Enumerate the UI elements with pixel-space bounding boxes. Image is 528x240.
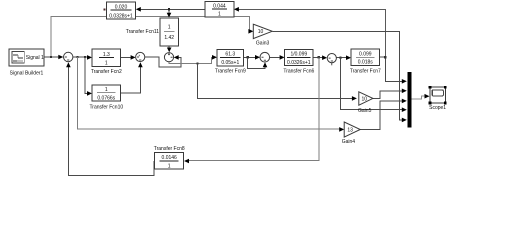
block labels xyxy=(10,29,447,152)
arrow into Gain5 left xyxy=(352,96,357,101)
svg-text:Transfer Fcn9: Transfer Fcn9 xyxy=(215,69,246,75)
junction at (51,57) xyxy=(50,56,52,58)
junction top xyxy=(168,8,170,10)
arrow into TF2 left xyxy=(87,55,92,60)
junction (84.9,57) xyxy=(84,56,86,58)
arrow into TF10 left xyxy=(87,91,92,96)
wire: Sum3 output to Transfer Fcn6 xyxy=(270,56,280,58)
arrow into mux in1 xyxy=(402,79,407,84)
wire: branch down from (197.6,63.6) to Gain5 input xyxy=(198,64,353,99)
wire: top feedback from TF7 up to 0.044 input xyxy=(238,9,386,57)
sum Sum3 xyxy=(260,52,270,62)
svg-text:10: 10 xyxy=(258,29,264,35)
block Transfer Fcn (0.020) top-left, flipped xyxy=(107,2,136,19)
wire: Gain3 output right then down to mux in5 xyxy=(272,31,402,120)
arrow into mux in2 xyxy=(402,89,407,94)
block Scope1 with selection handles xyxy=(430,87,445,103)
sum sign marks xyxy=(65,53,333,65)
svg-text:0.018s: 0.018s xyxy=(358,60,374,66)
svg-text:0.044: 0.044 xyxy=(213,4,226,10)
wire: drop into Transfer Fcn11 top xyxy=(168,9,170,13)
block Transfer Fcn10 xyxy=(92,85,121,101)
wire: branch down from TF6 output to Transfer Fcn8 input xyxy=(189,57,319,160)
svg-text:0.0326s+1: 0.0326s+1 xyxy=(287,60,311,66)
arrow into SumB top xyxy=(167,48,172,53)
svg-text:Gain3: Gain3 xyxy=(256,40,270,46)
block Transfer Fcn (0.044), flipped xyxy=(205,2,234,17)
svg-text:Transfer Fcn7: Transfer Fcn7 xyxy=(350,69,381,75)
svg-text:1: 1 xyxy=(105,87,108,93)
text values xyxy=(26,4,374,170)
svg-text:0.020: 0.020 xyxy=(115,5,128,11)
arrow into TF6 left xyxy=(280,55,285,60)
block Transfer Fcn9 xyxy=(217,50,244,67)
svg-text:1.3: 1.3 xyxy=(103,52,110,58)
arrow into Gain3 left xyxy=(248,29,253,34)
wire: branch down to Transfer Fcn10 input xyxy=(85,57,89,93)
arrow into Sum1 bottom (minus feedback) xyxy=(66,62,71,67)
arrow into SumB right xyxy=(174,55,179,60)
arrow into 0.044 block right xyxy=(234,7,239,12)
svg-text:1.42: 1.42 xyxy=(164,35,174,41)
block Signal Builder1 xyxy=(9,49,44,66)
arrow into 0.020 block right xyxy=(136,7,141,12)
svg-text:1: 1 xyxy=(168,163,171,169)
wire: Gain4 output up to mux in3 xyxy=(360,101,402,129)
mux (black bar) xyxy=(408,72,412,127)
gain Gain3 triangle xyxy=(253,24,373,137)
wire: Signal Builder to Sum1 xyxy=(44,56,59,58)
svg-text:Transfer Fcn10: Transfer Fcn10 xyxy=(89,104,123,110)
wire: branch down to Gain4 input (y=129) xyxy=(78,57,341,129)
wire: Transfer Fcn9 output to Sum3, branch up to Gain3, jog into Sum3 bottom xyxy=(244,56,256,58)
arrow into Sum4 left xyxy=(322,55,327,60)
wire: Transfer Fcn2 output to SumA xyxy=(121,56,131,58)
svg-text:1: 1 xyxy=(105,61,108,67)
junction (77.6,57) xyxy=(77,56,79,58)
wire: TF11 output down into SumB top xyxy=(168,46,170,49)
arrow into SumA left xyxy=(131,55,136,60)
arrow into TF11 top xyxy=(167,13,172,18)
stub below Sum4 xyxy=(331,63,333,65)
svg-text:Transfer Fcn6: Transfer Fcn6 xyxy=(283,69,314,75)
svg-text:0.05s+1: 0.05s+1 xyxy=(221,60,239,66)
block Transfer Fcn2 xyxy=(92,49,121,66)
wire: feedback into Sum1 bottom from Transfer Fcn8 xyxy=(68,65,153,176)
svg-text:13: 13 xyxy=(347,127,353,133)
arrow into TF9 left xyxy=(212,55,217,60)
gain Gain4 triangle xyxy=(344,122,360,137)
svg-text:1/0.099: 1/0.099 xyxy=(290,52,307,58)
sum SumB xyxy=(164,53,173,62)
svg-text:0.0766s: 0.0766s xyxy=(97,96,115,102)
svg-text:61.3: 61.3 xyxy=(225,52,235,58)
arrow into Sum3 left xyxy=(255,55,260,60)
wire: y16 branch down into Gain3 input xyxy=(250,30,251,32)
sum SumA xyxy=(136,52,145,61)
unconnected output stub of 0.020 block xyxy=(104,9,106,11)
svg-text:Scope1: Scope1 xyxy=(429,105,446,111)
arrow into Sum1 left xyxy=(58,55,63,60)
arrow into Transfer Fcn8 right xyxy=(184,159,189,164)
wire: Sum1 output to Transfer Fcn2 xyxy=(73,56,89,58)
wire: Transfer Fcn7 output junction down to mux in1 xyxy=(380,57,402,81)
arrow into mux in4 xyxy=(402,107,407,112)
wire: Transfer Fcn6 output to Sum4, junction xyxy=(313,56,323,58)
svg-text:10: 10 xyxy=(362,96,368,102)
wire: mux output to Scope1 xyxy=(411,96,424,99)
sum Sum4 xyxy=(327,54,336,63)
svg-text:0.099: 0.099 xyxy=(359,52,372,58)
wire: long branch from Signal Builder output up and across (y=16.4) xyxy=(51,17,250,58)
svg-text:Signal 1: Signal 1 xyxy=(26,55,44,61)
block Transfer Fcn7 xyxy=(351,49,380,66)
svg-text:1: 1 xyxy=(218,12,221,18)
block Transfer Fcn8 (flipped, bottom) xyxy=(155,152,184,169)
svg-text:Gain5: Gain5 xyxy=(358,108,372,114)
arrow into Gain4 left xyxy=(339,127,344,132)
arrow into mux in3 xyxy=(402,99,407,104)
arrowheads xyxy=(58,7,429,163)
arrow into Sum3 bottom xyxy=(263,62,268,67)
wire: Gain5 output jog up to mux in2 xyxy=(373,91,402,99)
svg-text:Transfer Fcn2: Transfer Fcn2 xyxy=(91,69,122,75)
svg-text:Gain4: Gain4 xyxy=(342,139,356,145)
arrow into Scope1 left xyxy=(425,94,430,99)
svg-text:1: 1 xyxy=(168,25,171,31)
svg-text:Transfer Fcn8: Transfer Fcn8 xyxy=(154,146,185,152)
svg-text:0.0328s+1: 0.0328s+1 xyxy=(109,13,133,19)
wire: 0.044 output left to 0.020 input, junction to TF11 xyxy=(140,8,206,10)
arrow into mux in5 xyxy=(402,118,407,123)
junction (197.6,63.6) xyxy=(197,63,199,65)
svg-text:Transfer Fcn11: Transfer Fcn11 xyxy=(126,29,160,35)
block Transfer Fcn6 xyxy=(285,50,313,66)
wire: Sum4 output to Transfer Fcn7, junction xyxy=(337,57,347,59)
wire: SumB output down and right to Transfer Fcn9 xyxy=(169,57,214,63)
svg-text:0.0146: 0.0146 xyxy=(162,155,178,161)
arrow into TF7 left xyxy=(346,55,351,60)
arrow into SumA bottom xyxy=(138,62,143,67)
wire: branch down from Sum4 output to mux in4 xyxy=(341,58,402,110)
svg-text:Signal Builder1: Signal Builder1 xyxy=(10,71,44,77)
wire: SumA output U-shape into SumB right port xyxy=(145,57,181,67)
wire: Transfer Fcn10 output up into SumA bottom xyxy=(121,64,141,93)
sum Sum1 xyxy=(63,52,336,62)
gain Gain5 triangle xyxy=(359,92,373,105)
block Transfer Fcn11 (tall) xyxy=(160,18,179,46)
